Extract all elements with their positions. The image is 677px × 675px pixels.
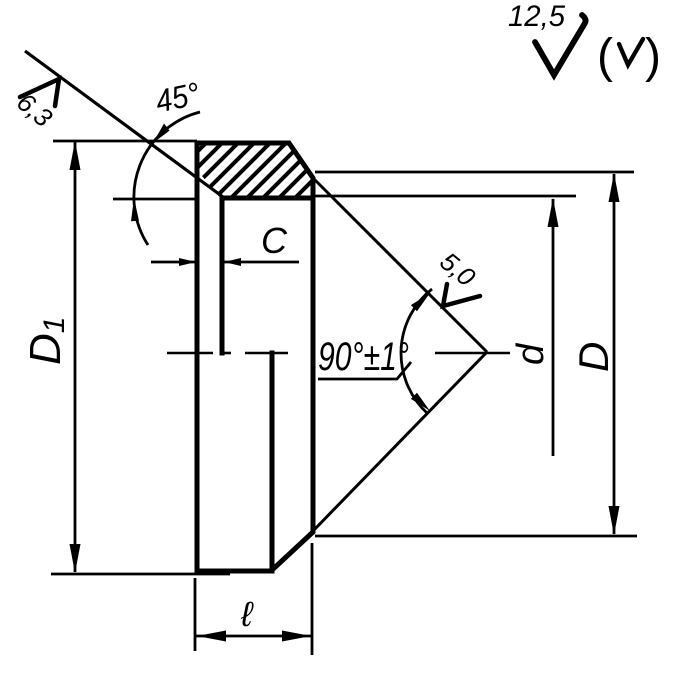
svg-text:): ) — [645, 30, 661, 83]
svg-text:90°±1°: 90°±1° — [318, 335, 409, 379]
svg-text:D: D — [570, 342, 617, 372]
svg-text:ℓ: ℓ — [240, 595, 254, 634]
svg-text:C: C — [261, 220, 288, 261]
svg-text:(: ( — [597, 30, 613, 83]
svg-text:12,5: 12,5 — [508, 0, 565, 33]
svg-text:d: d — [510, 342, 552, 365]
